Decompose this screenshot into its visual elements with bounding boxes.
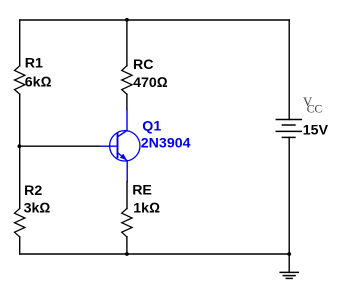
svg-text:RC: RC	[133, 57, 154, 73]
Q1 emitter pin lead	[126, 161, 128, 182]
wire left lower (R2 to bottom rail)	[19, 237, 21, 254]
svg-text:1kΩ: 1kΩ	[133, 200, 160, 216]
svg-text:3kΩ: 3kΩ	[24, 200, 51, 216]
battery plate long top	[276, 119, 301, 121]
wire right upper (top rail to battery V1)	[288, 20, 290, 120]
resistor R1	[15, 66, 25, 94]
wire ground stem	[288, 254, 290, 272]
Q1 base bar	[117, 134, 119, 157]
wire RE lower (RE to bottom rail)	[126, 237, 128, 254]
junction dot top (node VCC rail / RC tap)	[125, 18, 129, 22]
wire left middle (R1 to R2, through base node)	[19, 94, 21, 208]
Q1 emitter arrow head	[120, 154, 127, 161]
junction dot bottom right (ground tap)	[287, 252, 291, 256]
Q1 base pin lead	[100, 145, 117, 147]
resistor R2	[15, 209, 25, 237]
svg-text:R1: R1	[25, 56, 43, 72]
junction dot bottom middle (RE to ground rail)	[125, 252, 129, 256]
battery plate short	[282, 124, 295, 126]
wire top rail	[20, 19, 290, 21]
Q1 collector pin lead	[126, 109, 128, 131]
wire RC branch (top rail to RC)	[126, 20, 128, 66]
svg-text:6kΩ: 6kΩ	[25, 75, 52, 91]
Q1 envelope circle	[110, 131, 140, 161]
transistor Q1 (selected, blue)	[100, 109, 140, 181]
Q1 emitter internal diagonal	[118, 153, 128, 161]
wire collector upper (RC to Q1 collector pin)	[126, 94, 128, 109]
wire right lower (battery to bottom rail)	[288, 137, 290, 254]
Q1 collector internal diagonal	[118, 131, 127, 137]
wire emitter lower (Q1 emitter to RE)	[126, 182, 128, 209]
ground	[280, 272, 298, 278]
resistor RC	[122, 66, 132, 94]
svg-text:RE: RE	[132, 182, 152, 198]
svg-text:2N3904: 2N3904	[141, 136, 191, 152]
svg-text:Q1: Q1	[142, 119, 161, 135]
battery plate long	[276, 130, 301, 132]
svg-text:15V: 15V	[303, 122, 329, 138]
wire left upper (top rail to R1)	[19, 20, 21, 66]
battery plate short bottom	[282, 136, 295, 138]
junction dot node B (base divider tap)	[18, 144, 22, 148]
wire base (divider tap to Q1 base)	[20, 145, 101, 147]
battery V1 (VCC source)	[276, 120, 301, 138]
svg-text:R2: R2	[24, 183, 42, 199]
resistor RE	[122, 209, 132, 237]
svg-text:CC: CC	[307, 102, 323, 115]
wire bottom rail	[20, 253, 290, 255]
svg-text:470Ω: 470Ω	[133, 75, 168, 91]
